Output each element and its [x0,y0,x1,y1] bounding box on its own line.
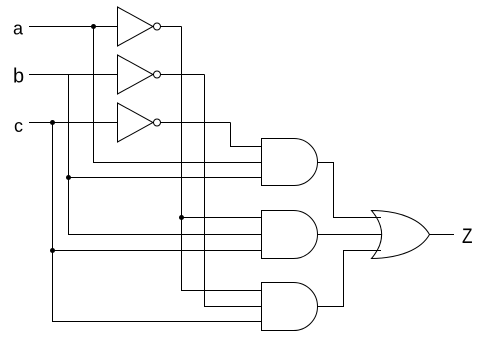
wire b branch vertical then to AND2 mid [69,75,262,235]
svg-text:c: c [14,116,23,136]
wire NOT1 output to vertical [161,26,182,28]
wire NOT2 output to vertical [161,74,205,76]
OR gate G4 [372,211,430,259]
inverter U3 triangle [118,103,154,142]
AND gate G2 [262,211,318,259]
wire b input [29,74,118,76]
wire AND2 output to OR mid input [318,234,382,236]
inverter U1 triangle [118,7,154,46]
inverter U2 bubble [154,71,161,78]
wire NOT-a tap to AND2 top [182,217,262,219]
svg-text:Z: Z [462,225,473,248]
wire AND3 output to OR bottom input [318,251,382,307]
wire a input [29,26,118,28]
wire NOT-b vertical then to AND3 mid [205,75,262,307]
wire NOT-a vertical then to AND3 top [182,27,262,291]
svg-text:a: a [13,19,24,39]
wire c branch vertical then to AND3 bottom [53,123,262,322]
wire c tap to AND2 bottom [53,250,262,252]
wire AND1 output to OR top input [318,163,382,218]
wire NOT-c step down to AND1 top [231,123,262,147]
junction dot b to AND1 [66,175,71,180]
inverter U1 bubble [154,23,161,30]
svg-text:b: b [13,66,24,88]
wire a branch vertical then to AND1 mid [94,27,262,163]
AND gate G1 [262,139,318,186]
junction dot NOT-a to AND2 [179,215,184,220]
junction dot c to AND2 [50,248,55,253]
wire b tap to AND1 bottom [69,177,262,179]
inverter U2 triangle [118,55,154,94]
junction dot c input [50,120,55,125]
inverter U3 bubble [154,119,161,126]
wire OR output to Z [430,234,455,236]
AND gate G3 [262,283,318,331]
junction dot a [91,24,96,29]
wire NOT3 output to vertical [161,122,231,124]
wire c input [29,122,118,124]
